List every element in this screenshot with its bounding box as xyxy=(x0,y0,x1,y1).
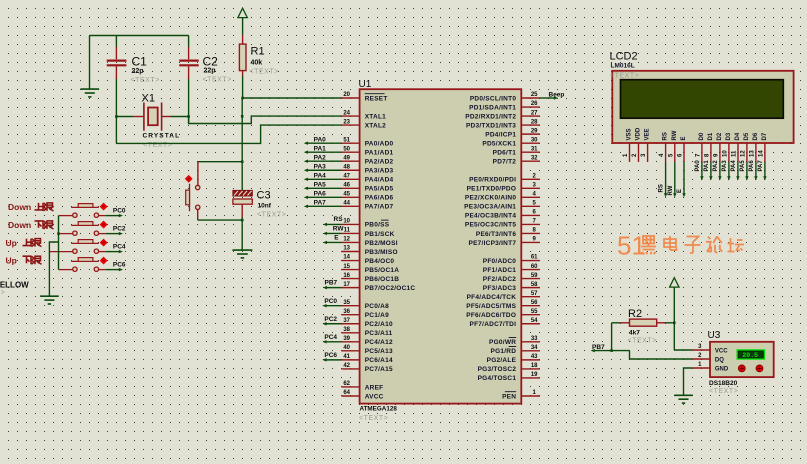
svg-text:49: 49 xyxy=(343,155,350,161)
C1 <TEXT> xyxy=(131,77,160,84)
svg-text:20.5: 20.5 xyxy=(742,352,758,359)
U1 pin 7 PE5/OC3C/INT5 (right) xyxy=(465,219,540,229)
wire/net terminal PC6 (button) xyxy=(106,262,126,272)
svg-text:Down: Down xyxy=(8,220,31,230)
net terminal PB7 (DS18B20 DQ net) xyxy=(591,344,630,352)
net terminal PC6 at U1 xyxy=(322,352,341,362)
svg-text:C3: C3 xyxy=(257,190,271,202)
svg-text:PB2/MOSI: PB2/MOSI xyxy=(365,240,398,247)
net terminal PA5 at U1 xyxy=(304,182,342,191)
svg-text:PD5/XCK1: PD5/XCK1 xyxy=(482,140,516,147)
svg-text:LCD2: LCD2 xyxy=(610,51,638,63)
svg-text:36: 36 xyxy=(343,309,350,315)
LCD2 pin 11 D4 xyxy=(732,132,742,162)
svg-text:15: 15 xyxy=(343,264,350,270)
U1 <TEXT> xyxy=(359,415,388,422)
wire/net terminal PC4 (button) xyxy=(106,244,126,254)
svg-text:PA3: PA3 xyxy=(722,160,728,172)
net terminal RS at U1 xyxy=(323,216,343,226)
net terminal RW at U1 xyxy=(323,225,345,235)
svg-text:28: 28 xyxy=(531,119,538,125)
svg-text:PD7/T2: PD7/T2 xyxy=(493,159,517,166)
wire VCC to U3 xyxy=(674,349,692,351)
svg-text:PA5/AD5: PA5/AD5 xyxy=(365,186,394,193)
U3 pin 3 VCC xyxy=(692,344,728,354)
svg-text:PC0: PC0 xyxy=(113,208,126,215)
wire/net terminal RS at LCD xyxy=(659,162,668,198)
svg-text:20: 20 xyxy=(343,92,350,98)
svg-text:43: 43 xyxy=(531,354,538,360)
svg-text:<TEXT>: <TEXT> xyxy=(628,338,657,345)
svg-text:22p: 22p xyxy=(204,67,216,74)
svg-text:39: 39 xyxy=(343,336,350,342)
svg-text:51: 51 xyxy=(343,137,350,143)
U1 pin 59 PF2/ADC2 (right) xyxy=(483,273,540,283)
svg-text:PA4: PA4 xyxy=(731,160,737,172)
wire U3 GND to ground xyxy=(684,368,693,395)
clipped gray label fragment at left edge xyxy=(0,290,5,297)
svg-text:E: E xyxy=(681,136,687,140)
svg-text:<TEXT>: <TEXT> xyxy=(610,73,639,80)
svg-text:PA2: PA2 xyxy=(713,160,719,172)
wire C2 node to XTAL1 xyxy=(189,116,342,123)
svg-text:U3: U3 xyxy=(708,330,721,341)
svg-text:PC6: PC6 xyxy=(324,352,337,359)
svg-text:40k: 40k xyxy=(251,60,263,67)
U1 pin 62 AREF (left) xyxy=(342,381,384,391)
svg-text:VSS: VSS xyxy=(627,128,633,140)
U1 pin 14 PB4/OC0 (left) xyxy=(342,255,395,265)
LCD2 pin 12 D5 xyxy=(740,132,750,162)
svg-text:PG4/TOSC1: PG4/TOSC1 xyxy=(478,375,517,382)
wire R2 left to PB7 net xyxy=(610,323,613,352)
LCD2 pin 3 VEE xyxy=(641,128,651,161)
svg-text:PA6/AD6: PA6/AD6 xyxy=(365,195,394,202)
svg-text:E: E xyxy=(334,234,339,241)
LCD2 screen xyxy=(621,80,784,119)
U3 <TEXT> xyxy=(709,388,738,395)
C2 <TEXT> xyxy=(203,77,232,84)
svg-text:PD0/SCL/INT0: PD0/SCL/INT0 xyxy=(470,95,516,102)
svg-text:54: 54 xyxy=(531,318,538,324)
U3 down button xyxy=(756,365,763,372)
ground (U3) xyxy=(674,395,693,403)
svg-text:R2: R2 xyxy=(628,308,642,320)
svg-text:PG1/RD: PG1/RD xyxy=(490,348,516,355)
svg-text:PF2/ADC2: PF2/ADC2 xyxy=(483,276,517,283)
U1 pin 35 PC0/A8 (left) xyxy=(342,300,390,310)
svg-text:Up: Up xyxy=(6,238,17,248)
svg-text:10: 10 xyxy=(722,150,728,157)
svg-text:PC5/A13: PC5/A13 xyxy=(365,348,393,355)
LCD2 pin 6 E xyxy=(678,136,688,161)
svg-text:PB4/OC0: PB4/OC0 xyxy=(365,258,395,265)
svg-text:PA7: PA7 xyxy=(314,200,327,207)
svg-text:24: 24 xyxy=(343,110,350,116)
net terminal PC2 at U1 xyxy=(322,316,341,326)
svg-text:PC4: PC4 xyxy=(113,244,126,251)
svg-text:59: 59 xyxy=(531,273,538,279)
C3 <TEXT> xyxy=(257,212,286,219)
svg-text:PD2/RXD1/INT2: PD2/RXD1/INT2 xyxy=(465,113,516,120)
svg-text:<TEXT>: <TEXT> xyxy=(203,77,232,84)
U1 pin 10 PB0/SS (left) xyxy=(342,219,390,229)
svg-text:PE0/RXD0/PDI: PE0/RXD0/PDI xyxy=(469,177,516,184)
svg-text:PB3/MISO: PB3/MISO xyxy=(365,249,398,256)
svg-text:PF3/ADC3: PF3/ADC3 xyxy=(483,285,517,292)
svg-text:10nf: 10nf xyxy=(258,203,272,210)
svg-text:16: 16 xyxy=(343,273,350,279)
svg-text:AVCC: AVCC xyxy=(365,393,384,400)
svg-text:42: 42 xyxy=(343,363,350,369)
C2 labels xyxy=(203,55,219,75)
svg-text:22p: 22p xyxy=(132,68,144,75)
svg-text:LM016L: LM016L xyxy=(611,62,635,69)
net terminal PC0 at U1 xyxy=(322,298,341,308)
svg-text:PF5/ADC5/TMS: PF5/ADC5/TMS xyxy=(466,303,516,310)
svg-text:PA5: PA5 xyxy=(314,182,327,189)
U1 pin 18 PG3/TOSC2 (right) xyxy=(478,363,540,373)
CRYSTAL value label xyxy=(143,133,181,140)
svg-text:PA4: PA4 xyxy=(314,172,327,179)
svg-text:<TEXT>: <TEXT> xyxy=(709,388,738,395)
svg-text:47: 47 xyxy=(343,173,350,179)
resistor R1 xyxy=(239,35,246,76)
svg-text:PA7/AD7: PA7/AD7 xyxy=(365,204,394,211)
U1 pin 25 PD0/SCL/INT0 (right) xyxy=(470,92,540,102)
U1 pin 49 PA2/AD2 (left) xyxy=(342,155,394,165)
svg-text:PF6/ADC6/TDO: PF6/ADC6/TDO xyxy=(466,312,516,319)
svg-text:RESET: RESET xyxy=(365,95,388,102)
svg-text:PA6: PA6 xyxy=(314,191,327,198)
svg-text:PA3: PA3 xyxy=(314,163,327,170)
U1 pin 43 PG2/ALE (right) xyxy=(487,354,540,364)
svg-text:PA7: PA7 xyxy=(758,160,764,172)
svg-text:14: 14 xyxy=(343,255,350,261)
svg-text:25: 25 xyxy=(531,92,538,98)
svg-text:33: 33 xyxy=(531,336,538,342)
svg-text:11: 11 xyxy=(732,150,738,157)
wire R1 bottom to RESET pin xyxy=(241,76,341,99)
U1 pin 36 PC1/A9 (left) xyxy=(342,309,390,319)
U1 pin 45 PA6/AD6 (left) xyxy=(342,192,394,202)
svg-text:13: 13 xyxy=(343,246,350,252)
U1 pin 5 PE3/OC3A/AIN1 (right) xyxy=(464,201,540,211)
U1 pin 4 PE2/XCK0/AIN0 (right) xyxy=(465,192,540,202)
svg-text:PG0/WR: PG0/WR xyxy=(489,339,516,346)
svg-text:51: 51 xyxy=(617,231,646,261)
wire crystal left lead xyxy=(115,115,144,118)
svg-text:PA5: PA5 xyxy=(740,160,746,172)
svg-text:17: 17 xyxy=(343,282,350,288)
LM016L value label xyxy=(611,62,635,69)
U1 pin 3 PE1/TXD0/PDO (right) xyxy=(467,183,540,193)
U1 pin 41 PC6/A14 (left) xyxy=(342,354,393,364)
R1 label xyxy=(251,46,265,67)
svg-text:PD3/TXD1/INT3: PD3/TXD1/INT3 xyxy=(466,122,516,129)
wire reset net down to C3 xyxy=(241,98,244,190)
svg-text:PF0/ADC0: PF0/ADC0 xyxy=(483,258,517,265)
svg-text:PB7: PB7 xyxy=(325,279,338,286)
LCD2 pin 2 VDD xyxy=(632,127,642,162)
U1 pin 24 XTAL1 (left) xyxy=(342,110,387,120)
U1 pin 6 PE4/OC3B/INT4 (right) xyxy=(465,210,540,220)
svg-text:CRYSTAL: CRYSTAL xyxy=(143,133,181,140)
U3 pin 1 GND xyxy=(692,362,729,372)
LCD2 pin 1 VSS xyxy=(623,128,633,161)
power symbol VCC top xyxy=(238,8,247,35)
svg-text:13: 13 xyxy=(749,150,755,157)
label YELLOW (clipped) xyxy=(0,280,29,289)
net terminal PA3 at U1 xyxy=(304,163,342,172)
svg-text:VCC: VCC xyxy=(715,348,728,354)
LCD2 pin 14 D7 xyxy=(758,132,768,162)
svg-text:56: 56 xyxy=(531,300,538,306)
LCD2 label xyxy=(610,51,638,63)
svg-text:PB1/SCK: PB1/SCK xyxy=(365,231,395,238)
svg-text:46: 46 xyxy=(343,183,350,189)
U1 pin 15 PB5/OC1A (left) xyxy=(342,264,400,274)
ground (buttons) xyxy=(40,296,59,304)
U1 pin 55 PF6/ADC6/TDO (right) xyxy=(466,309,540,319)
U1 pin 9 PE7/ICP3/INT7 (right) xyxy=(469,237,540,247)
wire/net terminal PA5 at LCD D5 xyxy=(740,160,749,181)
U1 label xyxy=(359,79,372,90)
wire/net terminal PC0 (button) xyxy=(106,208,126,218)
svg-text:Up: Up xyxy=(6,255,17,265)
svg-text:PG3/TOSC2: PG3/TOSC2 xyxy=(478,366,517,373)
svg-text:29: 29 xyxy=(531,128,538,134)
svg-text:PC1/A9: PC1/A9 xyxy=(365,312,389,319)
svg-text:PEN: PEN xyxy=(502,393,516,400)
U1 pin 16 PB6/OC1B (left) xyxy=(342,273,400,283)
svg-text:AREF: AREF xyxy=(365,384,384,391)
svg-text:62: 62 xyxy=(343,381,350,387)
svg-text:PF7/ADC7/TDI: PF7/ADC7/TDI xyxy=(469,321,516,328)
wire top rail gnd/C1/C2 xyxy=(90,36,189,90)
svg-text:41: 41 xyxy=(343,354,350,360)
svg-text:12: 12 xyxy=(740,150,746,157)
svg-text:D5: D5 xyxy=(744,132,750,140)
U1 pin 60 PF1/ADC1 (right) xyxy=(483,264,540,274)
svg-text:PA1: PA1 xyxy=(314,145,327,152)
U1 pin 38 PC3/A11 (left) xyxy=(342,327,393,337)
svg-text:PD4/ICP1: PD4/ICP1 xyxy=(485,131,516,138)
U1 pin 17 PB7/OC2/OC1C (left) xyxy=(342,282,416,292)
wire/net terminal PC2 (button) xyxy=(106,226,126,236)
U3 up button xyxy=(738,365,745,372)
U1 pin 54 PF7/ADC7/TDI (right) xyxy=(469,318,539,328)
svg-text:48: 48 xyxy=(343,164,350,170)
svg-text:PA4/AD4: PA4/AD4 xyxy=(365,177,394,184)
svg-text:E: E xyxy=(677,189,683,193)
X1 <TEXT> xyxy=(143,142,172,149)
svg-text:55: 55 xyxy=(531,309,538,315)
svg-text:37: 37 xyxy=(343,318,350,324)
button SW2 (Down lower-limit) xyxy=(59,221,107,235)
svg-text:PB7: PB7 xyxy=(592,344,605,351)
wire button bus A xyxy=(57,216,60,270)
svg-text:60: 60 xyxy=(531,264,538,270)
svg-text:PE2/XCK0/AIN0: PE2/XCK0/AIN0 xyxy=(465,195,516,202)
svg-text:PA0: PA0 xyxy=(695,160,701,172)
svg-text:58: 58 xyxy=(531,282,538,288)
svg-text:DQ: DQ xyxy=(715,357,724,363)
svg-text:23: 23 xyxy=(343,119,350,125)
push button (reset) xyxy=(185,162,200,220)
MCU U1 body xyxy=(360,89,522,403)
LCD2 pin 13 D6 xyxy=(749,132,759,162)
svg-text:VDD: VDD xyxy=(636,127,642,140)
LCD2 pin 4 RS xyxy=(659,132,669,162)
svg-text:PB0/SS: PB0/SS xyxy=(365,222,390,229)
LCD2 body xyxy=(612,71,793,143)
svg-text:R1: R1 xyxy=(251,46,265,58)
svg-text:PE7/ICP3/INT7: PE7/ICP3/INT7 xyxy=(469,240,517,247)
U1 pin 61 PF0/ADC0 (right) xyxy=(483,255,540,265)
wire/net terminal PA0 at LCD D0 xyxy=(695,160,704,181)
wire button bus B to ground xyxy=(49,242,58,296)
svg-text:40: 40 xyxy=(343,345,350,351)
svg-text:PD6/T1: PD6/T1 xyxy=(493,149,517,156)
U1 pin 23 XTAL2 (left) xyxy=(342,119,387,129)
svg-text:D0: D0 xyxy=(699,132,705,140)
svg-text:PA1/AD1: PA1/AD1 xyxy=(365,149,394,156)
R1 <TEXT> label xyxy=(250,69,279,76)
svg-text:61: 61 xyxy=(531,255,538,261)
svg-text:DS18B20: DS18B20 xyxy=(709,380,738,387)
svg-text:PC2: PC2 xyxy=(324,316,337,323)
svg-text:Beep: Beep xyxy=(549,91,565,98)
U1 pin 34 PG1/RD (right) xyxy=(490,345,539,355)
label Down (lower limit) xyxy=(8,220,54,230)
U1 pin 32 PD7/T2 (right) xyxy=(493,155,540,165)
U1 pin 48 PA3/AD3 (left) xyxy=(342,164,394,174)
svg-text:34: 34 xyxy=(531,345,538,351)
svg-text:PE6/T3/INT6: PE6/T3/INT6 xyxy=(476,231,516,238)
net terminal Beep at U1 pin 25 xyxy=(540,91,565,99)
wire crystal right lead xyxy=(162,115,190,118)
R2 label xyxy=(628,308,642,336)
svg-text:XTAL2: XTAL2 xyxy=(365,122,386,129)
wire reset net to button xyxy=(198,160,244,163)
svg-text:PE3/OC3A/AIN1: PE3/OC3A/AIN1 xyxy=(464,204,516,211)
svg-text:27: 27 xyxy=(531,110,538,116)
net terminal PA6 at U1 xyxy=(304,191,342,200)
U1 pin 2 PE0/RXD0/PDI (right) xyxy=(469,173,540,183)
U1 pin 56 PF5/ADC5/TMS (right) xyxy=(466,300,540,310)
svg-text:<TEXT>: <TEXT> xyxy=(131,77,160,84)
svg-text:Down: Down xyxy=(8,202,31,212)
svg-text:C1: C1 xyxy=(132,55,148,69)
svg-text:<TEXT>: <TEXT> xyxy=(250,69,279,76)
U3 pin 2 DQ xyxy=(692,353,724,363)
svg-text:PG2/ALE: PG2/ALE xyxy=(487,357,517,364)
svg-text:D6: D6 xyxy=(753,132,759,140)
X1 label xyxy=(142,93,155,105)
svg-text:26: 26 xyxy=(531,101,538,107)
svg-text:PC6: PC6 xyxy=(113,262,126,269)
wire C1 node to XTAL2 xyxy=(116,125,341,143)
svg-text:31: 31 xyxy=(531,146,538,152)
svg-text:RS: RS xyxy=(663,132,669,140)
U1 pin 20 RESET (left) xyxy=(342,92,388,102)
svg-text:RW: RW xyxy=(672,130,678,140)
svg-text:PA2: PA2 xyxy=(314,154,327,161)
U1 pin 27 PD2/RXD1/INT2 (right) xyxy=(465,110,540,120)
resistor R2 xyxy=(612,319,676,326)
svg-text:<TEXT>: <TEXT> xyxy=(0,290,5,297)
LCD2 pin 8 D1 xyxy=(704,132,714,162)
LCD2 pin 5 RW xyxy=(668,130,678,162)
svg-text:PA0/AD0: PA0/AD0 xyxy=(365,140,394,147)
U1 pin 42 PC7/A15 (left) xyxy=(342,363,393,373)
U1 pin 47 PA4/AD4 (left) xyxy=(342,173,394,183)
button SW3 (Up upper-limit) xyxy=(49,239,107,253)
wire/net terminal PA7 at LCD D7 xyxy=(758,160,767,181)
svg-text:<TEXT>: <TEXT> xyxy=(257,212,286,219)
DS18B20 value label xyxy=(709,380,738,387)
C3 labels xyxy=(257,190,272,210)
crystal X1 xyxy=(144,103,162,131)
wire C3 to ground xyxy=(241,204,243,250)
R2 <TEXT> xyxy=(628,338,657,345)
svg-text:X1: X1 xyxy=(142,93,155,105)
U1 pin 1 PEN (right) xyxy=(502,390,540,400)
svg-text:PB7/OC2/OC1C: PB7/OC2/OC1C xyxy=(365,285,416,292)
svg-text:PC4/A12: PC4/A12 xyxy=(365,339,393,346)
svg-text:PC2: PC2 xyxy=(113,226,126,233)
svg-text:PF1/ADC1: PF1/ADC1 xyxy=(483,267,517,274)
svg-text:PE4/OC3B/INT4: PE4/OC3B/INT4 xyxy=(465,213,516,220)
U1 pin 57 PF4/ADC4/TCK (right) xyxy=(467,291,540,301)
net terminal PA7 at U1 xyxy=(304,200,342,209)
svg-text:4k7: 4k7 xyxy=(629,329,640,336)
U1 pin 30 PD5/XCK1 (right) xyxy=(482,137,539,147)
svg-text:PA6: PA6 xyxy=(749,160,755,172)
capacitor C3 (polarized) xyxy=(233,190,252,204)
svg-text:XTAL1: XTAL1 xyxy=(365,113,386,120)
capacitor C1 xyxy=(107,36,127,144)
net terminal PC4 at U1 xyxy=(322,334,341,344)
ground (crystal cluster) xyxy=(81,89,100,97)
U3 temperature display xyxy=(737,350,764,359)
capacitor C2 xyxy=(179,36,199,124)
svg-text:12: 12 xyxy=(343,237,350,243)
svg-text:PE5/OC3C/INT5: PE5/OC3C/INT5 xyxy=(465,222,516,229)
svg-text:PF4/ADC4/TCK: PF4/ADC4/TCK xyxy=(467,294,517,301)
U1 pin 37 PC2/A10 (left) xyxy=(342,318,393,328)
wire/net terminal PA6 at LCD D6 xyxy=(749,160,758,181)
ATMEGA128 value label xyxy=(360,406,398,413)
wire/net terminal RW at LCD xyxy=(668,162,677,198)
U1 pin 29 PD4/ICP1 (right) xyxy=(485,128,540,138)
svg-text:PA2/AD2: PA2/AD2 xyxy=(365,159,394,166)
net terminal E at U1 xyxy=(323,234,342,244)
U1 pin 64 AVCC (left) xyxy=(342,390,384,400)
U1 pin 26 PD1/SDA/INT1 (right) xyxy=(469,101,540,111)
U1 pin 13 PB3/MISO (left) xyxy=(342,246,398,256)
svg-text:YELLOW: YELLOW xyxy=(0,280,29,289)
wire button bottom to C3 bottom net xyxy=(198,219,244,222)
U1 pin 19 PG4/TOSC1 (right) xyxy=(478,372,540,382)
svg-text:GND: GND xyxy=(715,366,729,372)
svg-text:ATMEGA128: ATMEGA128 xyxy=(360,406,398,413)
label Up (upper limit) xyxy=(6,238,42,248)
svg-text:RS: RS xyxy=(334,216,344,223)
label Up (lower limit) xyxy=(6,255,42,265)
svg-text:30: 30 xyxy=(531,137,538,143)
